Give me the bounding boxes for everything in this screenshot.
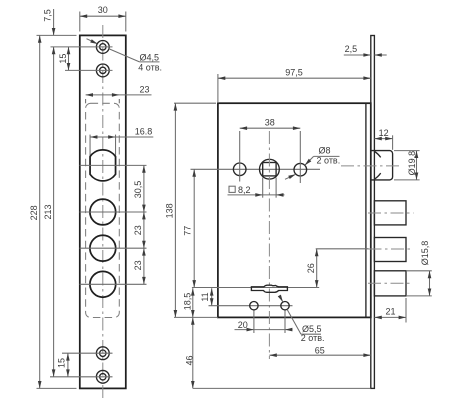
slot left edge — [89, 135, 91, 158]
svg-text:213: 213 — [43, 204, 53, 219]
svg-text:228: 228 — [29, 205, 39, 220]
screw hole S4 countersink — [96, 370, 109, 383]
deadbolt pin 2 — [374, 238, 406, 262]
cylinder vertical centerline — [268, 131, 270, 359]
dim 16.8 — [90, 136, 153, 138]
cylinder hole — [260, 159, 280, 179]
screw hole S2 — [100, 67, 106, 73]
dim square 8,2 — [228, 194, 285, 196]
dim 15 top — [68, 47, 70, 71]
deadbolt pin 1 — [374, 201, 406, 225]
svg-text:16.8: 16.8 — [135, 127, 153, 137]
dim 77 — [193, 169, 195, 287]
dim D19,8 extensions — [394, 150, 420, 152]
dim 138 — [174, 103, 176, 317]
faceplate vertical centerline — [102, 25, 104, 399]
svg-text:77: 77 — [183, 226, 193, 236]
svg-text:12: 12 — [379, 128, 389, 138]
hole B1 vertical centerline — [239, 131, 241, 182]
svg-text:65: 65 — [315, 345, 325, 355]
hole B1 (left D8) — [233, 163, 246, 176]
svg-text:8,2: 8,2 — [238, 185, 251, 195]
dim 21 extension — [405, 298, 407, 323]
dim 15 bottom — [67, 353, 69, 377]
centerline S2 — [65, 69, 113, 71]
dim 23 top extensions — [85, 99, 87, 103]
dim 97,5 extension — [217, 74, 219, 103]
svg-text:11: 11 — [200, 292, 210, 301]
leader D5,5 — [280, 297, 283, 302]
svg-text:30: 30 — [98, 5, 108, 15]
screw hole S3 countersink — [96, 347, 109, 360]
dim D19,8 — [416, 151, 418, 180]
hole A3 — [90, 235, 116, 261]
svg-text:20: 20 — [238, 320, 248, 330]
svg-text:7,5: 7,5 — [42, 9, 52, 22]
key slot — [251, 285, 287, 292]
centerline hole A1 — [80, 164, 147, 166]
dim 138 extension top — [174, 102, 216, 104]
svg-text:97,5: 97,5 — [285, 67, 303, 77]
svg-text:Ø8: Ø8 — [319, 146, 331, 156]
centerline S4 — [50, 376, 113, 378]
pin 1 centerline — [368, 212, 414, 214]
screw hole S1 countersink — [96, 41, 109, 54]
chained dims 30,5 23 23 line — [143, 165, 145, 284]
centerline hole A2 — [80, 211, 147, 213]
svg-text:15: 15 — [56, 358, 66, 368]
svg-text:138: 138 — [164, 203, 174, 218]
svg-text:4 отв.: 4 отв. — [138, 63, 162, 73]
dim 23 top — [86, 94, 152, 96]
deadbolt pin 3 — [374, 271, 406, 296]
dim 30 extension lines — [79, 12, 81, 32]
hole C1 (D5,5 left) — [250, 302, 258, 310]
faceplate bottom extension — [193, 387, 371, 389]
dim 97,5 — [218, 77, 371, 79]
svg-text:2 отв.: 2 отв. — [301, 333, 325, 343]
hole A2 — [90, 199, 116, 225]
svg-text:38: 38 — [265, 117, 275, 127]
faceplate side view strip — [371, 36, 375, 389]
svg-text:18,5: 18,5 — [182, 293, 192, 311]
faceplate front view outline — [80, 35, 126, 388]
centerline S1 — [51, 46, 113, 48]
screw hole S3 — [100, 350, 106, 356]
dim 26 — [316, 249, 318, 288]
dim D15,8 — [429, 271, 431, 296]
latch bolt — [371, 151, 392, 180]
hole A4 — [90, 271, 116, 297]
dim 12 extension — [392, 135, 394, 150]
svg-text:21: 21 — [385, 307, 395, 317]
screw hole S2 countersink — [96, 64, 109, 77]
latch bevel bottom — [375, 173, 381, 179]
svg-text:23: 23 — [139, 85, 149, 95]
dim 2,5 — [344, 54, 371, 56]
dim 21 — [374, 316, 406, 318]
screw hole S1 — [100, 44, 106, 50]
centerline hole A3 — [80, 247, 147, 249]
lock case side view outline — [218, 103, 371, 317]
svg-text:30,5: 30,5 — [133, 181, 143, 199]
svg-text:46: 46 — [184, 355, 194, 365]
hole C2 (D5,5 right) — [281, 302, 289, 310]
square dim extensions — [262, 178, 264, 198]
dim 138 extension bottom — [174, 316, 193, 318]
dim 65 — [269, 354, 370, 356]
pin 3 centerline — [368, 282, 411, 284]
hole B2 (right D8) — [294, 163, 307, 176]
svg-text:15: 15 — [58, 54, 68, 64]
body bottom extension left — [193, 316, 218, 318]
label square 8,2 — [229, 186, 235, 192]
pin 2 extension for dim 26 — [316, 248, 369, 250]
dim 30 — [80, 15, 126, 17]
latch bevel top — [375, 152, 381, 158]
holes centerline — [191, 168, 321, 170]
svg-text:2 отв.: 2 отв. — [317, 155, 341, 165]
dim 228 — [39, 35, 41, 388]
lock case inner right wall — [365, 103, 367, 317]
svg-text:26: 26 — [306, 263, 316, 273]
leader D8 — [305, 156, 314, 165]
screw hole S4 — [100, 374, 106, 380]
dim 228 extension bottom — [37, 387, 77, 389]
dim 38 — [240, 127, 301, 129]
dim 20 — [235, 329, 293, 331]
slot right edge — [115, 135, 117, 158]
dim 7,5 — [53, 9, 55, 35]
key slot centerline extension — [192, 287, 319, 289]
centerline hole A4 — [80, 283, 147, 285]
lock case hidden outline (dashed) — [86, 103, 120, 317]
dim 12 — [374, 138, 392, 140]
pin 2 centerline — [369, 248, 414, 250]
leader hole S1 — [87, 39, 97, 44]
dim 213 — [53, 47, 55, 377]
dim 20 extensions — [253, 311, 255, 334]
dim 228 extension top — [37, 34, 77, 36]
svg-text:23: 23 — [133, 260, 143, 270]
svg-text:Ø15,8: Ø15,8 — [420, 241, 430, 266]
svg-text:Ø19,8: Ø19,8 — [407, 151, 417, 176]
hole B2 vertical centerline — [299, 131, 301, 183]
svg-text:Ø4,5: Ø4,5 — [140, 52, 160, 62]
square hole 8.2 — [263, 163, 276, 176]
dim 18,5 line — [192, 288, 194, 388]
svg-text:2,5: 2,5 — [345, 44, 358, 54]
latch centerline — [341, 165, 400, 167]
dim D15,8 extensions — [406, 270, 432, 272]
centerline S3 — [62, 352, 113, 354]
svg-text:23: 23 — [133, 225, 143, 235]
dim 11 — [211, 288, 213, 306]
hole A1 double-D — [90, 150, 116, 181]
screw holes centerline — [209, 305, 293, 307]
